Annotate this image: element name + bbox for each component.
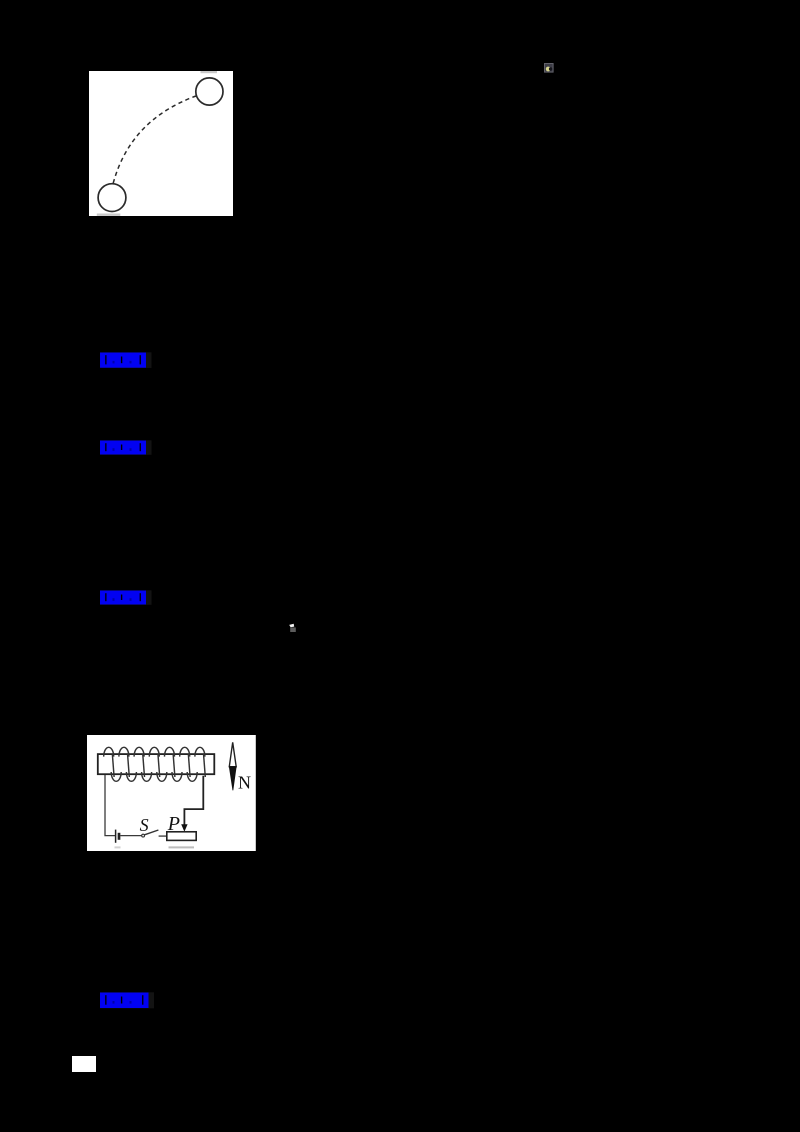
gray smudge below rheostat [168, 847, 193, 849]
gray smudge below battery [115, 847, 121, 849]
compass needle lower half (solid) [229, 767, 236, 791]
figure 2: solenoid circuit with compass needle (white panel) [87, 735, 256, 851]
blue label 2 [100, 440, 152, 456]
tiny cursor glyph [288, 622, 298, 633]
small white rectangle bottom-left [72, 1056, 96, 1072]
wire: left lead from coil to battery [105, 774, 115, 836]
dashed arc [113, 96, 196, 183]
arrowhead onto rheostat slider P [181, 824, 187, 832]
battery short thick plate [118, 833, 121, 840]
switch pivot [142, 834, 145, 837]
rheostat box [167, 832, 196, 841]
gray smudge bottom edge [96, 214, 120, 216]
svg-text:N: N [238, 773, 251, 793]
svg-text:P: P [167, 813, 180, 835]
solenoid core rect [98, 754, 214, 774]
blue label 3 [100, 590, 152, 606]
gray smudge top edge [200, 71, 217, 73]
coil turns [104, 747, 206, 781]
wire battery to switch [120, 835, 141, 837]
blue label 4 [100, 992, 155, 1009]
wire: right lead from coil to rheostat slider [184, 776, 203, 826]
figure 1: two circles with dashed arc (white panel) [89, 71, 233, 216]
wire switch to rheostat [159, 835, 167, 837]
circle bottom-left [98, 184, 126, 212]
tiny gray icon with yellow dot (top right) [544, 63, 554, 73]
svg-text:S: S [140, 815, 149, 835]
circle top-right [195, 78, 222, 105]
compass needle upper half (hollow) [229, 742, 236, 766]
switch blade S [145, 830, 159, 835]
battery long plate [115, 830, 117, 843]
blue label 1 [100, 352, 152, 369]
